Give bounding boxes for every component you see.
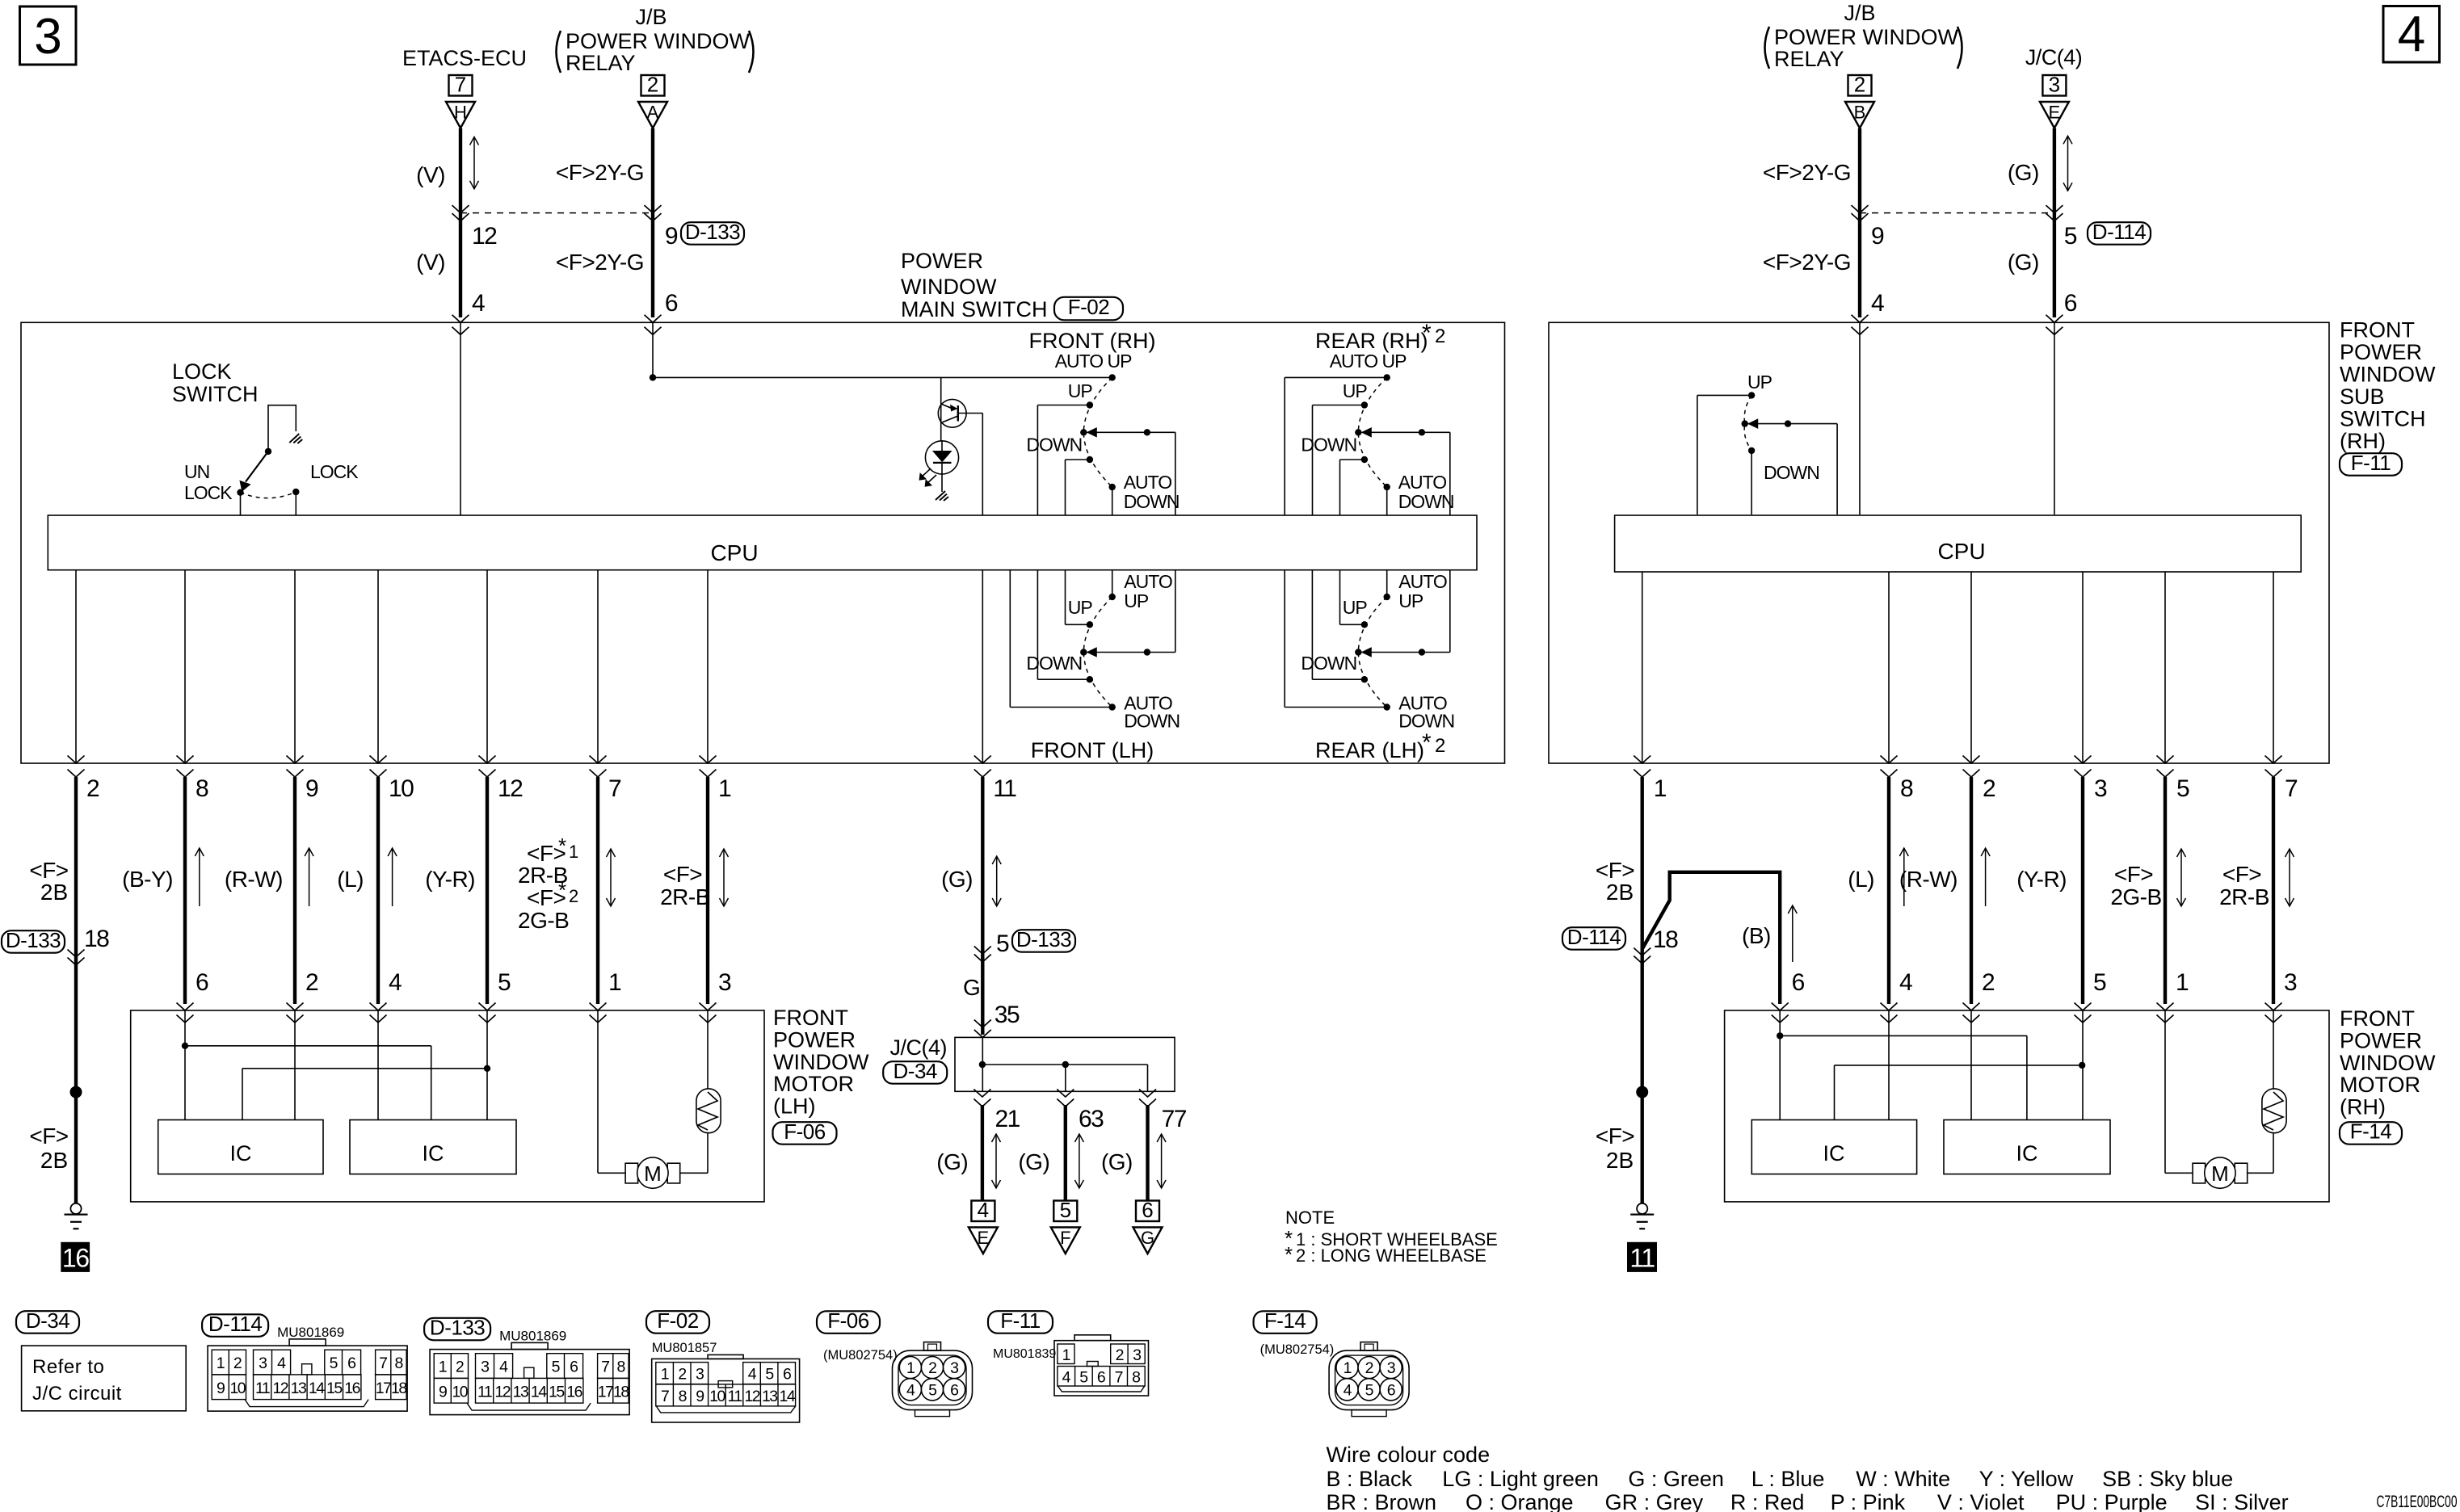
- label pin 5 and D-133 on pin11 wire: [996, 927, 1075, 957]
- junction connector J/C(4) D-34 box: [955, 1037, 1175, 1091]
- svg-text:4: 4: [1062, 1369, 1071, 1387]
- junction node on 2B wire right: [1636, 1086, 1648, 1098]
- svg-text:18: 18: [613, 1383, 629, 1401]
- label (Y-R): [425, 867, 475, 892]
- label (B-Y): [122, 867, 173, 892]
- label <F> 2B lower right: [1596, 1123, 1634, 1173]
- pin labels 2 8 9 10 12 7 1 11 below main switch: [86, 775, 1016, 802]
- svg-text:GR : Grey: GR : Grey: [1605, 1490, 1704, 1512]
- wire junction to AUTO UP contact FRONT(RH): [653, 376, 1112, 378]
- svg-text:11: 11: [1629, 1244, 1655, 1273]
- svg-text:SWITCH: SWITCH: [172, 382, 258, 406]
- svg-text:3: 3: [718, 969, 731, 996]
- wire <F>2R-B pin1 to motor pin3: [706, 777, 709, 1004]
- svg-text:MU801869: MU801869: [277, 1325, 344, 1340]
- svg-text:13: 13: [762, 1388, 777, 1405]
- svg-text:F-14: F-14: [2350, 1119, 2392, 1144]
- svg-text:4: 4: [389, 969, 402, 996]
- label D-133 and pin 18: [2, 926, 109, 953]
- svg-text:WINDOW: WINDOW: [2340, 363, 2436, 387]
- label J/C(4) right: [2025, 45, 2083, 69]
- svg-text:DOWN: DOWN: [1301, 435, 1356, 456]
- switch FRONT (RH) upper group: [1026, 351, 1179, 515]
- svg-text:DOWN: DOWN: [1301, 653, 1356, 674]
- svg-text:UP: UP: [1124, 590, 1149, 611]
- svg-text:5: 5: [1365, 1381, 1374, 1399]
- svg-text:POWER: POWER: [2340, 1028, 2422, 1052]
- svg-text:18: 18: [84, 926, 109, 952]
- label <F> 2B upper right: [1596, 858, 1634, 905]
- boundary chevrons sub switch pins 4 6: [1852, 315, 2063, 335]
- svg-text:63: 63: [1079, 1106, 1104, 1132]
- svg-text:DOWN: DOWN: [1026, 435, 1082, 456]
- svg-text:3: 3: [2094, 775, 2107, 802]
- document number C7B11E00BC00: [2377, 1493, 2458, 1511]
- wire 2R-B/2G-B pin7 to motor pin1: [596, 777, 599, 1004]
- svg-text:AUTO: AUTO: [1398, 472, 1447, 493]
- motor RH armature circuit: [2165, 1010, 2273, 1173]
- svg-text:2B: 2B: [1606, 1148, 1634, 1173]
- label pin 9 and connector D-133: [665, 220, 744, 250]
- svg-text:DOWN: DOWN: [1124, 711, 1180, 732]
- label <F> 2G-B: [2110, 862, 2161, 909]
- svg-text:(LH): (LH): [773, 1094, 816, 1119]
- label <F> 2B upper: [29, 858, 68, 905]
- label <F>2Y-G lower left: [556, 250, 644, 275]
- double arrow on pin1 wire: [720, 849, 729, 906]
- label LOCK right: [310, 461, 359, 482]
- wire (R-W) pin2 to motor pin2 right: [1970, 777, 1973, 1004]
- svg-text:3: 3: [481, 1359, 489, 1376]
- svg-text:(V): (V): [416, 250, 445, 275]
- svg-text:12: 12: [498, 775, 523, 802]
- svg-text:AUTO UP: AUTO UP: [1330, 351, 1407, 372]
- svg-text:3: 3: [950, 1359, 958, 1377]
- arrow up on B-Y wire: [195, 848, 204, 906]
- wire (G) pin11 to J/C(4): [974, 777, 991, 1035]
- svg-text:<F>: <F>: [29, 1123, 68, 1149]
- svg-text:8: 8: [394, 1354, 402, 1372]
- svg-text:8: 8: [1132, 1369, 1140, 1387]
- svg-text:(MU802754): (MU802754): [1260, 1342, 1335, 1357]
- svg-text:POWER: POWER: [773, 1027, 856, 1052]
- svg-text:*: *: [1422, 729, 1432, 756]
- svg-text:7: 7: [601, 1359, 609, 1376]
- lock switch ground: [289, 434, 302, 443]
- double arrow on wire V: [470, 137, 479, 189]
- svg-text:F-06: F-06: [827, 1308, 869, 1333]
- svg-text:6: 6: [665, 290, 678, 317]
- boundary chevrons J/C exits: [973, 1090, 1156, 1107]
- svg-text:4: 4: [1899, 969, 1912, 996]
- connector triangle G pin 6: [1133, 1198, 1163, 1254]
- label REAR (LH) *2: [1315, 729, 1445, 762]
- svg-text:NOTE: NOTE: [1285, 1207, 1335, 1228]
- svg-text:2G-B: 2G-B: [2110, 884, 2161, 909]
- svg-text:FRONT: FRONT: [773, 1006, 848, 1030]
- svg-text:(G): (G): [1018, 1149, 1049, 1174]
- svg-text:MU801857: MU801857: [652, 1341, 717, 1355]
- dashed link line right: [1860, 212, 2054, 214]
- motor M symbol RH: [2193, 1157, 2248, 1188]
- svg-text:DOWN: DOWN: [1764, 462, 1819, 483]
- svg-text:REAR (LH): REAR (LH): [1315, 738, 1424, 762]
- svg-text:6: 6: [783, 1366, 791, 1384]
- svg-text:16: 16: [344, 1380, 360, 1397]
- svg-text:W : White: W : White: [1856, 1467, 1950, 1491]
- svg-text:WINDOW: WINDOW: [901, 275, 997, 299]
- double arrow on pin11 wire: [992, 856, 1001, 906]
- front power window sub switch box F-11: [1549, 322, 2329, 763]
- motor M symbol LH: [625, 1157, 680, 1188]
- svg-text:2: 2: [1116, 1346, 1124, 1364]
- svg-text:4: 4: [472, 290, 485, 317]
- svg-text:FRONT (LH): FRONT (LH): [1031, 738, 1154, 762]
- svg-text:MAIN SWITCH: MAIN SWITCH: [901, 297, 1048, 321]
- label (G) pin11: [941, 867, 973, 892]
- svg-text:D-114: D-114: [1567, 925, 1621, 949]
- svg-text:B: B: [1854, 103, 1866, 123]
- svg-text:16: 16: [62, 1244, 89, 1273]
- svg-text:F-11: F-11: [2351, 451, 2391, 475]
- svg-text:<F>: <F>: [2222, 862, 2261, 887]
- arrow up on R-W wire: [305, 848, 313, 906]
- connector triangle E pin 3 right: [2040, 73, 2069, 128]
- svg-text:F-06: F-06: [784, 1119, 826, 1144]
- svg-text:O : Orange: O : Orange: [1465, 1490, 1574, 1512]
- labels pins 4 2 5 1 3 above motor RH: [1899, 969, 2297, 996]
- wires CPU to sub switch bottom edge: [1642, 572, 2273, 763]
- svg-text:10: 10: [452, 1383, 468, 1401]
- svg-text:L : Blue: L : Blue: [1751, 1467, 1825, 1491]
- circuit breaker (thermistor) motor LH: [696, 1089, 721, 1133]
- svg-text:D-114: D-114: [2092, 220, 2146, 244]
- label (V) lower: [416, 250, 445, 275]
- svg-text:IC: IC: [2016, 1141, 2038, 1165]
- svg-text:RELAY: RELAY: [566, 51, 636, 75]
- svg-text:5: 5: [330, 1354, 339, 1372]
- svg-text:4: 4: [906, 1381, 915, 1399]
- svg-text:<F>2Y-G: <F>2Y-G: [556, 160, 644, 185]
- front power window motor LH box F-06: [131, 1010, 764, 1202]
- svg-text:D-133: D-133: [685, 220, 740, 244]
- LED illumination lamp: [925, 441, 958, 492]
- label pin 6 motor RH: [1792, 969, 1805, 996]
- arrow up on L wire: [388, 848, 397, 906]
- label (L) right: [1848, 867, 1874, 892]
- IC box 1 motor LH: [158, 1120, 323, 1174]
- page number 3 box: [20, 6, 77, 65]
- svg-text:8: 8: [1900, 775, 1913, 802]
- svg-text:(G): (G): [941, 867, 973, 892]
- svg-text:6: 6: [570, 1359, 578, 1376]
- svg-text:<F>: <F>: [1596, 1123, 1634, 1149]
- svg-text:7: 7: [608, 775, 621, 802]
- connector label D-34 refer box: [16, 1308, 186, 1411]
- svg-text:2: 2: [1983, 775, 1995, 802]
- svg-text:8: 8: [616, 1359, 624, 1376]
- svg-text:M: M: [2211, 1161, 2229, 1186]
- svg-text:LOCK: LOCK: [184, 482, 233, 503]
- svg-text:Y : Yellow: Y : Yellow: [1979, 1467, 2074, 1491]
- svg-text:5: 5: [2176, 775, 2189, 802]
- transistor for illumination: [938, 377, 982, 441]
- svg-text:2G-B: 2G-B: [518, 908, 569, 933]
- svg-text:G: G: [1141, 1228, 1154, 1248]
- svg-text:6: 6: [2064, 290, 2077, 317]
- label <F>2R-B *1 and <F>2G-B *2: [518, 834, 578, 933]
- svg-text:IC: IC: [1823, 1141, 1845, 1165]
- connector triangle E pin 4: [969, 1198, 998, 1254]
- label D-114 and pin 18 right: [1562, 925, 1678, 953]
- svg-text:14: 14: [531, 1383, 547, 1401]
- svg-text:11: 11: [477, 1383, 492, 1401]
- svg-text:H: H: [454, 103, 467, 123]
- label pin 6 on wire 2Y-G: [665, 290, 678, 317]
- svg-text:REAR (RH): REAR (RH): [1315, 329, 1428, 353]
- svg-text:5: 5: [1060, 1198, 1071, 1222]
- boundary chevrons main switch pin 6: [645, 315, 662, 335]
- svg-text:UP: UP: [1343, 597, 1368, 618]
- svg-text:LOCK: LOCK: [310, 461, 359, 482]
- CPU bar of main switch: [48, 515, 1477, 570]
- svg-text:CPU: CPU: [1937, 539, 1985, 564]
- svg-text:11: 11: [727, 1388, 742, 1405]
- svg-text:BR : Brown: BR : Brown: [1327, 1490, 1437, 1512]
- boundary chevrons at main switch bottom: [68, 756, 991, 778]
- svg-text:9: 9: [439, 1383, 447, 1401]
- svg-text:12: 12: [744, 1388, 759, 1405]
- svg-text:*: *: [1422, 320, 1432, 346]
- wire (R-W) pin9 to motor pin2: [293, 777, 296, 1004]
- labels pins 21 63 77: [995, 1106, 1187, 1132]
- svg-text:4: 4: [499, 1359, 508, 1376]
- label (V) upper: [416, 162, 445, 187]
- wire (G) to ground G pin77: [1146, 1105, 1149, 1201]
- svg-text:(MU802754): (MU802754): [823, 1348, 898, 1363]
- svg-text:2B: 2B: [1606, 880, 1634, 905]
- svg-text:2B: 2B: [40, 880, 68, 905]
- svg-text:MOTOR: MOTOR: [2340, 1073, 2420, 1097]
- label (R-W): [225, 867, 283, 892]
- svg-text:1: 1: [2176, 969, 2189, 996]
- labels pin 9 and 4 right: [1871, 223, 1884, 317]
- lock switch LOCK contact: [292, 489, 299, 515]
- svg-text:3: 3: [2284, 969, 2297, 996]
- svg-text:UP: UP: [1068, 380, 1093, 401]
- svg-text:5: 5: [928, 1381, 937, 1399]
- label <F> 2R-B right: [2219, 862, 2269, 909]
- svg-text:6: 6: [1142, 1198, 1153, 1222]
- wire pin6 to junction: [652, 322, 654, 377]
- label FRONT (LH): [1031, 738, 1154, 762]
- svg-text:AUTO UP: AUTO UP: [1055, 351, 1132, 372]
- svg-text:9: 9: [665, 223, 678, 250]
- wire (L) pin10 to motor pin4: [376, 777, 380, 1004]
- svg-text:A: A: [647, 103, 659, 123]
- sub switch UP/DOWN contact group: [1697, 392, 1837, 514]
- svg-text:13: 13: [513, 1383, 528, 1401]
- svg-text:CPU: CPU: [710, 540, 758, 565]
- svg-text:2: 2: [1435, 735, 1445, 757]
- svg-text:<F>: <F>: [663, 862, 702, 887]
- svg-text:UP: UP: [1747, 372, 1772, 393]
- svg-text:2: 2: [1365, 1359, 1373, 1377]
- label FRONT POWER WINDOW MOTOR (LH) F-06: [773, 1006, 869, 1144]
- connector triangle A pin 2 (J/B power window relay): [638, 73, 667, 128]
- label J/C(4) D-34: [883, 1035, 947, 1084]
- svg-text:F-02: F-02: [1068, 295, 1110, 319]
- label FRONT POWER WINDOW SUB SWITCH (RH) F-11: [2340, 318, 2436, 476]
- switch REAR (LH) lower group: [1285, 570, 1454, 732]
- wire <F>2Y-G from relay pin2 to sub switch pin 4: [1852, 128, 1869, 317]
- ground point 16 black box: [61, 1242, 90, 1272]
- wire <F>2G-B pin5 to motor pin1: [2164, 777, 2167, 1004]
- boundary chevrons motor LH entries: [177, 1003, 717, 1023]
- label G wire colour: [963, 975, 981, 1000]
- svg-text:11: 11: [255, 1380, 270, 1397]
- svg-text:11: 11: [993, 775, 1016, 802]
- wire (G) from J/C to sub switch pin 6: [2046, 128, 2063, 317]
- switch FRONT (LH) lower group: [1010, 570, 1180, 732]
- svg-text:8: 8: [196, 775, 208, 802]
- labels (G) x3: [936, 1149, 1133, 1174]
- svg-text:D-34: D-34: [894, 1059, 937, 1083]
- svg-text:F-02: F-02: [657, 1308, 699, 1333]
- connector D-133 pinout drawing: [424, 1315, 629, 1414]
- LED light arrows: [919, 468, 936, 486]
- svg-text:MOTOR: MOTOR: [773, 1072, 854, 1096]
- svg-text:DOWN: DOWN: [1124, 491, 1180, 512]
- svg-text:MU801839: MU801839: [993, 1347, 1056, 1361]
- svg-text:UP: UP: [1343, 380, 1368, 401]
- svg-text:2 : LONG WHEELBASE: 2 : LONG WHEELBASE: [1296, 1245, 1487, 1266]
- svg-text:LG : Light green: LG : Light green: [1442, 1467, 1599, 1491]
- connector D-114 pinout drawing: [202, 1312, 407, 1411]
- svg-text:7: 7: [1115, 1369, 1123, 1387]
- ground of 2B wire right: [1630, 1203, 1654, 1229]
- svg-text:2: 2: [1854, 73, 1865, 97]
- svg-text:1: 1: [661, 1366, 669, 1384]
- double arrows on ground wires: [992, 1134, 1167, 1188]
- wire <F>2B pin2 to ground: [68, 777, 85, 1203]
- connector triangle H pin 7 (ETACS-ECU): [446, 73, 475, 128]
- svg-text:FRONT: FRONT: [2340, 1006, 2415, 1031]
- label (L): [337, 867, 364, 892]
- svg-text:F-14: F-14: [1264, 1308, 1306, 1333]
- svg-text:5: 5: [1079, 1369, 1088, 1387]
- svg-text:WINDOW: WINDOW: [773, 1050, 869, 1074]
- svg-text:SUB: SUB: [2340, 384, 2385, 409]
- page number 4 box: [2383, 6, 2440, 63]
- wire (B-Y) pin8 to motor pin6: [183, 777, 187, 1004]
- label (B): [1742, 923, 1771, 948]
- svg-text:DOWN: DOWN: [1026, 653, 1082, 674]
- svg-text:AUTO: AUTO: [1398, 571, 1447, 592]
- svg-text:1: 1: [1062, 1346, 1070, 1364]
- svg-text:F-11: F-11: [1000, 1308, 1041, 1333]
- svg-text:MU801869: MU801869: [499, 1329, 566, 1344]
- labels <F>2Y-G right side: [1763, 160, 1851, 275]
- svg-text:POWER WINDOW: POWER WINDOW: [1774, 25, 1958, 49]
- svg-text:FRONT: FRONT: [2340, 318, 2415, 342]
- wires CPU to main switch bottom edge: [76, 570, 982, 763]
- IC box 1 motor RH: [1751, 1120, 1916, 1174]
- svg-text:5: 5: [996, 930, 1009, 957]
- svg-text:4: 4: [277, 1354, 286, 1372]
- label <F>2Y-G upper left: [556, 160, 644, 185]
- svg-text:<F>: <F>: [2114, 862, 2153, 887]
- motor LH internal wiring to ICs: [182, 1010, 490, 1120]
- svg-text:SWITCH: SWITCH: [2340, 407, 2425, 431]
- svg-text:4: 4: [978, 1198, 989, 1222]
- wire (L) pin8 to motor pin4 right: [1887, 777, 1890, 1004]
- svg-text:4: 4: [748, 1366, 757, 1384]
- svg-text:15: 15: [326, 1380, 343, 1397]
- wire <F>2Y-G from J/B relay pin 2 to main switch pin 6: [645, 128, 662, 317]
- svg-text:3: 3: [259, 1354, 267, 1372]
- svg-text:2: 2: [305, 969, 318, 996]
- label J/B (POWER WINDOW RELAY) left: [557, 5, 754, 75]
- power window main switch box F-02: [21, 322, 1505, 763]
- LED ground: [936, 491, 948, 501]
- svg-text:8: 8: [679, 1388, 687, 1405]
- svg-text:POWER: POWER: [901, 249, 983, 273]
- svg-text:2: 2: [1982, 969, 1995, 996]
- svg-text:6: 6: [1097, 1369, 1105, 1387]
- svg-text:(B-Y): (B-Y): [122, 867, 173, 892]
- svg-text:3: 3: [1387, 1359, 1395, 1377]
- boundary chevrons motor RH entries: [1772, 1003, 2282, 1023]
- svg-text:D-114: D-114: [208, 1312, 262, 1336]
- double arrow right 1: [2177, 849, 2186, 906]
- svg-text:3: 3: [696, 1366, 704, 1384]
- svg-text:6: 6: [950, 1381, 958, 1399]
- svg-text:(R-W): (R-W): [1899, 867, 1957, 892]
- svg-text:SB : Sky blue: SB : Sky blue: [2102, 1467, 2233, 1491]
- svg-text:*: *: [1285, 1242, 1293, 1266]
- label POWER WINDOW MAIN SWITCH F-02: [901, 249, 1123, 321]
- svg-text:(L): (L): [337, 867, 364, 892]
- svg-text:2B: 2B: [40, 1148, 68, 1173]
- wire pin4 to CPU: [460, 322, 461, 515]
- svg-text:(Y-R): (Y-R): [2016, 867, 2067, 892]
- svg-text:FRONT (RH): FRONT (RH): [1029, 329, 1156, 353]
- svg-text:(G): (G): [2008, 250, 2039, 275]
- svg-text:35: 35: [995, 1002, 1020, 1028]
- svg-text:Refer to: Refer to: [32, 1356, 104, 1378]
- svg-text:Wire colour code: Wire colour code: [1327, 1443, 1491, 1467]
- svg-text:2R-B: 2R-B: [660, 884, 710, 909]
- svg-text:2: 2: [456, 1359, 464, 1376]
- double arrow on G wire right: [2063, 136, 2072, 191]
- svg-text:15: 15: [549, 1383, 565, 1401]
- svg-text:<F>2Y-G: <F>2Y-G: [1763, 250, 1851, 275]
- svg-text:UP: UP: [1398, 590, 1423, 611]
- svg-text:21: 21: [995, 1106, 1020, 1132]
- label REAR (RH) *2: [1315, 320, 1445, 353]
- lock switch UNLOCK contact: [237, 489, 243, 516]
- svg-text:7: 7: [661, 1388, 669, 1405]
- svg-text:3: 3: [34, 9, 61, 65]
- svg-text:IC: IC: [423, 1141, 444, 1165]
- svg-text:3: 3: [1133, 1346, 1141, 1364]
- svg-text:*: *: [558, 878, 566, 902]
- svg-text:17: 17: [598, 1383, 613, 1401]
- svg-text:(G): (G): [936, 1149, 968, 1174]
- labels pin 5 D-114 and 6 right: [2064, 220, 2151, 317]
- svg-text:4: 4: [1871, 290, 1884, 317]
